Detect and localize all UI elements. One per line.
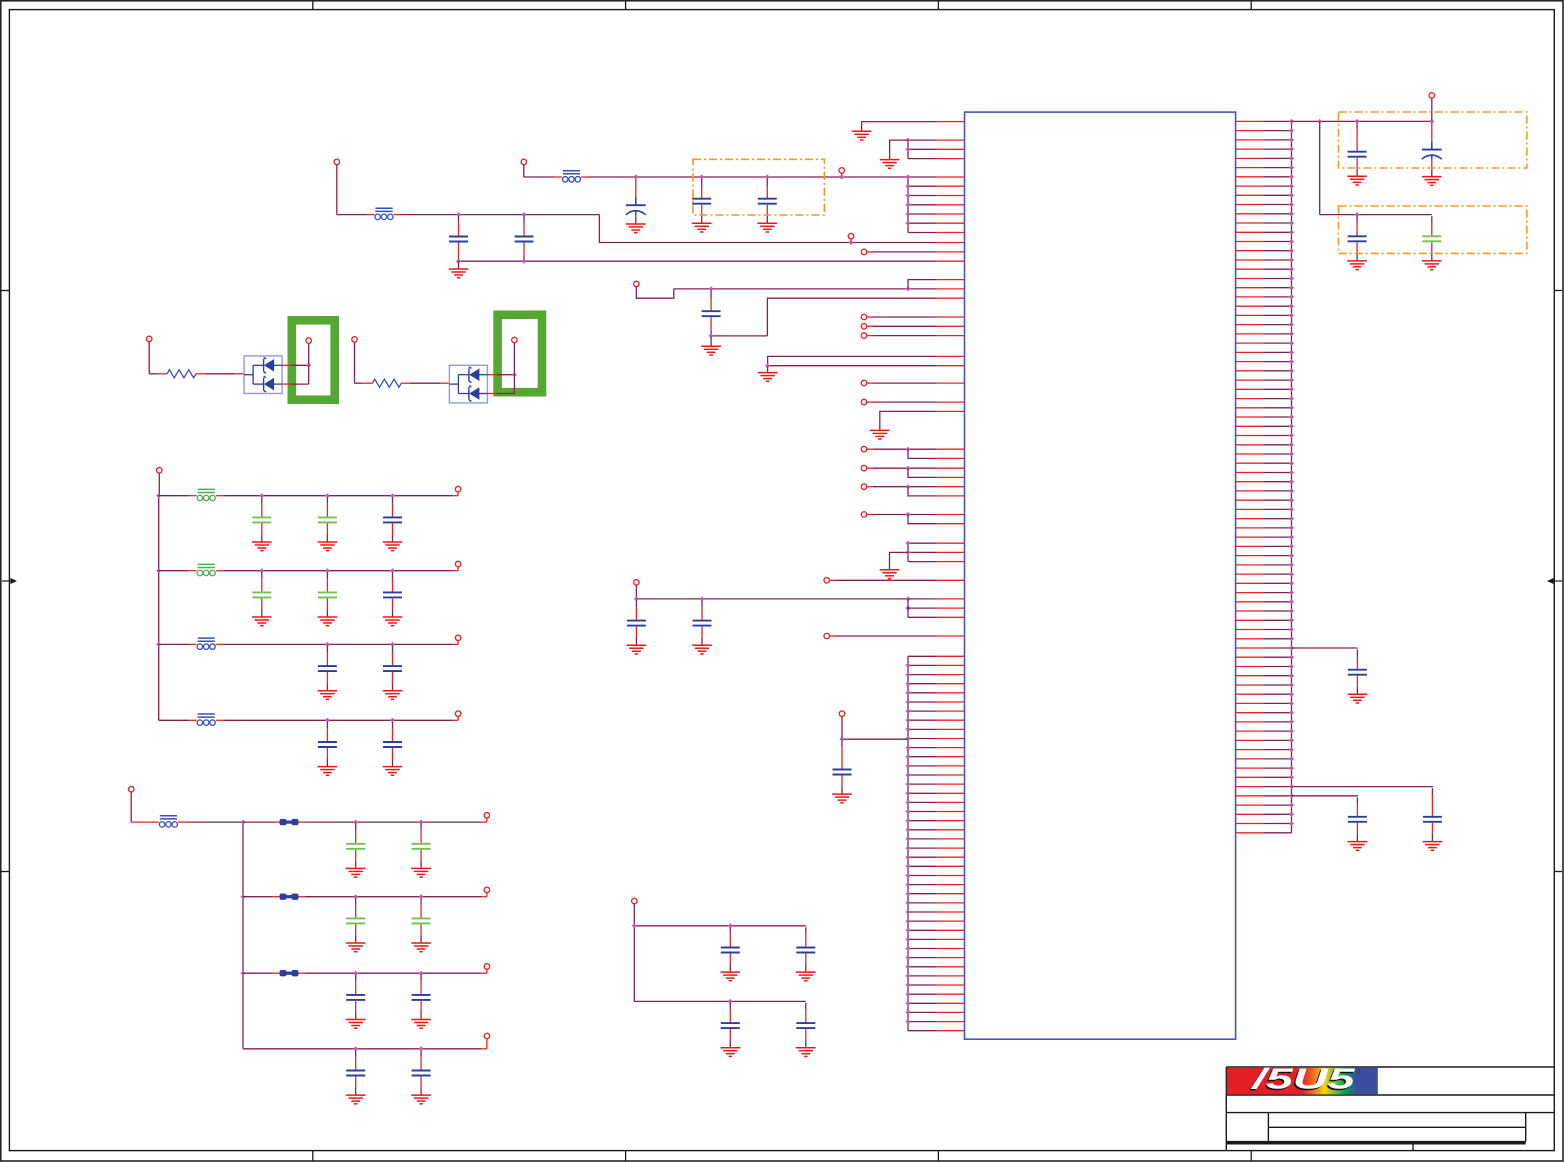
sheet connector arrow right [1547,578,1562,584]
ground for CC2 [411,943,431,952]
capacitor CC4 [412,1050,431,1094]
node terminal PB5 [455,711,461,717]
sheet connector arrow left [2,578,17,584]
capacitor CB41 [318,722,337,766]
wire net k25 [768,356,936,365]
ground for C25 [1423,842,1443,851]
node terminal PB3 [455,561,461,567]
wire jog k17 [908,280,936,289]
ground for C20 [1347,176,1367,185]
capacitor CB42 [383,722,402,766]
node terminal PC3 [484,887,490,893]
capacitor C23 [1422,216,1441,260]
node terminal PC4 [484,964,490,970]
IC left pin row M [936,635,965,637]
wire net H4 [906,512,937,524]
ground for C9 [627,645,647,654]
ground for C24 [1348,694,1368,703]
IC left pin row k19 [936,297,965,299]
ferrite bead FB4 [189,564,224,575]
node terminal PT3 [352,337,363,384]
node terminal P6 [634,281,674,298]
wire to C26 [1292,795,1358,798]
ground for CB22 [318,617,338,626]
orange highlight box 0 [693,159,824,215]
node terminal PB2 [455,486,461,492]
ground for CB42 [383,767,403,776]
node terminal PH1 [861,446,908,452]
node terminal PD1 [861,314,936,320]
wire R2 to D2 [411,382,450,384]
wire rail row 1 [159,492,458,499]
IC U1 right pins [1236,121,1292,832]
ground GND2 [880,160,900,169]
ground for CB41 [318,767,338,776]
IC left pins group N [908,656,965,1030]
capacitor CB31 [318,646,337,690]
orange highlight box 1 [1339,112,1527,168]
capacitor CB11 [252,497,271,541]
wire net H3 [906,484,937,496]
ground GND3 [449,261,469,278]
IC left pin row D3 [936,335,965,337]
wire FB7 to bus [186,821,243,823]
node terminal PC5 [484,1033,490,1039]
wire to GND2 [890,140,908,159]
ground for C21 [1422,177,1442,186]
capacitor C11 [833,741,852,794]
capacitor C25 [1423,788,1442,841]
ferrite bead FB1 [367,208,402,219]
title block grid [1226,1067,1554,1151]
node terminal PH3 [861,484,908,490]
wire vertical to second rail [1319,121,1321,214]
capacitor CB23 [383,572,402,616]
IC U1 body [965,112,1236,1039]
node terminal P2 [521,159,527,177]
node terminal PM1 [632,898,638,926]
wire R1 to D1 [206,373,245,375]
node terminal P8 [824,633,936,639]
node terminal P3 [839,168,845,176]
wire bus N [906,656,911,1030]
ground for C10 [692,645,712,654]
capacitor C24 [1348,650,1367,694]
node terminal PT1 [146,336,157,374]
ferrite bead FB7 [151,816,186,827]
wire to GND7 [890,552,909,569]
IC left pins H4 [936,515,965,524]
capacitor C10 [693,600,712,644]
node terminal PT4 [512,337,518,374]
IC left pins group A2 [908,140,965,159]
wire rail VDD2 [524,175,911,180]
ferrite bead FB5 [189,638,224,649]
IC left pins H3 [936,487,965,496]
node terminal P9 [839,711,845,738]
green highlight box 2 [498,315,542,392]
wire rail 261 [456,259,936,264]
IC left pin row k25 [936,355,965,357]
capacitor C9 [627,600,646,644]
polarized capacitor C21 [1422,123,1442,176]
ground for CB12 [318,542,338,551]
wire rail row 2 [159,567,458,574]
wire to GND6 [880,411,936,430]
wire bus A2 [906,138,911,159]
capacitor CM1 [721,927,740,971]
ASUS logo [1227,1064,1378,1098]
ground for CM1 [721,972,741,981]
wire bus left block [156,493,161,720]
IC left pins group I [908,543,965,561]
IC left pins group B [908,177,965,233]
node terminal PC1 [128,786,150,822]
node terminal P7 [634,580,640,599]
IC left pins H1 [936,449,965,458]
node terminal top-right [1429,93,1435,121]
capacitor CC3 [412,975,431,1019]
IC left pin row J [936,579,965,581]
capacitor C20 [1348,123,1367,176]
wire net k26 [765,363,936,368]
wire rail row 3 [159,640,458,647]
capacitor C7 [758,179,777,223]
capacitor CB13 [383,497,402,541]
ground for CC4 [411,1095,431,1104]
ground for CC1 [346,868,366,877]
jumper JP1 [273,819,306,825]
ground for CB32 [383,691,403,700]
capacitor CM4 [796,1003,815,1047]
IC left pin row k17 [936,279,965,281]
orange highlight box 2 [1339,206,1527,253]
capacitor C1 [449,216,468,260]
wire VCC top-right rail [1292,119,1435,124]
node terminal PJ [824,578,936,584]
TVS diode array D1 [244,356,282,394]
wire net H2 [906,466,937,478]
wire rail bottom row 4 [243,1039,487,1052]
node terminal PT2 [306,338,312,364]
right bus junctions [1289,119,1294,826]
ground for CC4 [346,1095,366,1104]
ground for CB23 [383,617,403,626]
wire second right rail [1320,212,1432,217]
ground for CC3 [411,1020,431,1029]
capacitor CC4 [346,1050,365,1094]
capacitor CB32 [383,646,402,690]
wire to GND1 [862,122,936,131]
capacitor CB21 [252,572,271,616]
node terminal PF1 [861,380,936,386]
ground for CM4 [796,1048,816,1057]
IC left pin row D1 [936,316,965,318]
node terminal PB4 [455,635,461,641]
jumper JP3 [273,970,306,976]
capacitor CC2 [412,898,431,942]
ground for C23 [1422,261,1442,270]
resistor R1 [158,370,206,378]
IC left pin row k13 [936,242,965,244]
node terminal PD2 [861,324,936,330]
node terminal PH2 [861,465,908,471]
ground GND5 [758,367,778,382]
wire rail bottom row 2 [243,893,487,900]
node terminal P4 [848,233,854,241]
node terminal PC2 [484,813,490,819]
IC left pin row 1 [936,121,965,123]
ferrite bead FB3 [189,489,224,500]
wire bus bottom-left [241,820,246,1049]
node terminal PD3 [861,333,936,339]
node terminal PF2 [861,399,936,405]
wire rail VDD1 [337,212,936,245]
node terminal PB1 [157,468,163,496]
capacitor C8 [702,290,721,336]
wire to C24 [1292,647,1358,650]
node terminal PH4 [861,512,908,518]
capacitor CB12 [318,497,337,541]
capacitor C6 [692,179,711,223]
ground for C22 [1347,261,1367,270]
svg-text:/5U5: /5U5 [1249,1064,1356,1096]
wire rail mid 926 [632,923,806,1004]
ground GND1 [852,131,872,140]
wire rail bottom row 3 [243,969,487,976]
ground for C11 [832,794,852,803]
wire bus B [906,175,911,233]
capacitor CC2 [346,898,365,942]
wire bus 599 [908,599,936,617]
capacitor CC1 [346,824,365,868]
wire net 739 [840,737,909,742]
capacitor CM3 [721,1003,740,1047]
capacitor CM2 [796,927,815,971]
ground GND7 [880,570,900,579]
ground for CC3 [346,1020,366,1029]
green highlight box 1 [292,320,335,399]
ground for C7 [758,223,778,232]
IC left pin row k26 [936,365,965,367]
IC left pin row D2 [936,325,965,327]
ground GND6 [870,430,890,439]
ground for CB11 [252,542,272,551]
wire rail bottom row 1 [243,818,487,825]
ground for CC1 [411,868,431,877]
polarized capacitor C5 [626,179,646,224]
jumper JP2 [273,894,306,900]
capacitor CC3 [346,975,365,1019]
IC left pin row k18 [936,288,965,290]
wire net H1 [906,447,937,459]
IC left pins H2 [936,468,965,477]
ground for CB31 [318,691,338,700]
resistor R2 [363,379,411,387]
ground for CM3 [721,1048,741,1057]
right pin bus wire [1291,121,1293,832]
capacitor CB22 [318,572,337,616]
wire to C25 [1292,786,1433,789]
TVS diode array D2 [449,365,487,403]
wire rail 599 [634,596,911,610]
wire rail row 4 [159,716,458,723]
ferrite bead FB2 [554,171,589,182]
IC left pin row G [936,410,965,412]
IC left pin row k14 [936,251,965,253]
svg-text:®: ® [1356,1068,1362,1077]
node terminal P1 [334,159,340,214]
ground GND4 [701,337,721,355]
capacitor C2 [515,216,534,260]
ground for CB21 [252,617,272,626]
wire capX bottom rail [709,333,768,338]
ferrite bead FB6 [189,714,224,725]
ground for CM2 [796,972,816,981]
ground for CC2 [346,943,366,952]
IC left pin row F2 [936,401,965,403]
capacitor CC1 [412,824,431,868]
capacitor C22 [1348,216,1367,260]
ground for CB13 [383,542,403,551]
wire bus I [906,541,911,562]
ground for C26 [1348,842,1368,851]
wire D1 out [282,363,311,384]
IC left pin row F1 [936,382,965,384]
wire D2 out [487,372,517,393]
ground for C5 [626,224,646,233]
ground for C6 [692,223,712,232]
IC left pins group K [936,599,965,617]
node terminal P5 [861,249,936,255]
IC left pin row k15 [936,260,965,262]
wire net k19 [767,298,936,336]
wire net k18 [674,286,936,291]
capacitor C26 [1348,797,1367,841]
